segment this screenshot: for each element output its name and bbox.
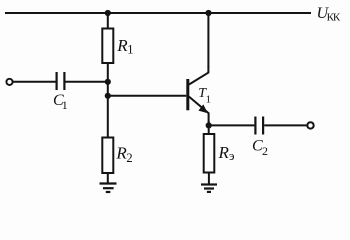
node: rail / collector junction — [205, 10, 211, 16]
wire: C1 to bias junction — [66, 81, 108, 83]
wire: base wire to transistor — [108, 95, 187, 97]
svg-text:1: 1 — [206, 94, 212, 106]
ground under RЭ — [201, 185, 217, 192]
svg-text:2: 2 — [262, 144, 268, 158]
resistor R1 — [102, 29, 113, 64]
label T1 — [198, 86, 211, 105]
wire: R2 to ground stem — [107, 173, 109, 184]
node: base branch junction — [105, 93, 111, 99]
svg-text:2: 2 — [126, 151, 132, 165]
svg-text:R: R — [218, 143, 230, 162]
node: emitter junction — [206, 122, 212, 128]
resistor RЭ — [204, 134, 215, 173]
label RЭ — [218, 143, 235, 163]
svg-text:КК: КК — [327, 12, 341, 24]
label C1 — [53, 92, 68, 112]
label C2 — [252, 137, 268, 158]
wire: emitter node to C2 — [209, 124, 255, 126]
input terminal — [6, 79, 12, 85]
svg-text:1: 1 — [62, 98, 68, 112]
svg-text:э: э — [229, 149, 235, 163]
wire: rail to R1 top — [107, 13, 109, 29]
output terminal — [307, 122, 313, 128]
resistor R2 — [102, 138, 113, 174]
node: rail / R1 junction — [105, 10, 111, 16]
label R2 — [115, 144, 132, 165]
node: input / bias junction — [105, 79, 111, 85]
wire: C2 to output terminal — [264, 124, 307, 126]
svg-text:1: 1 — [127, 43, 133, 57]
wire: R1 bottom to R2 top (through base junctions) — [107, 63, 109, 138]
label R1 — [116, 36, 133, 57]
wire: RЭ to ground stem — [208, 173, 210, 185]
label Ukk — [317, 5, 341, 24]
transistor T1 — [186, 66, 208, 122]
capacitor C2 — [255, 117, 263, 135]
wire: emitter to RЭ top — [208, 121, 210, 134]
wire: top supply rail — [5, 12, 311, 14]
ground under R2 — [100, 184, 117, 193]
wire: collector to rail — [207, 13, 209, 67]
capacitor C1 — [57, 72, 65, 90]
wire: input terminal to C1 — [13, 81, 56, 83]
